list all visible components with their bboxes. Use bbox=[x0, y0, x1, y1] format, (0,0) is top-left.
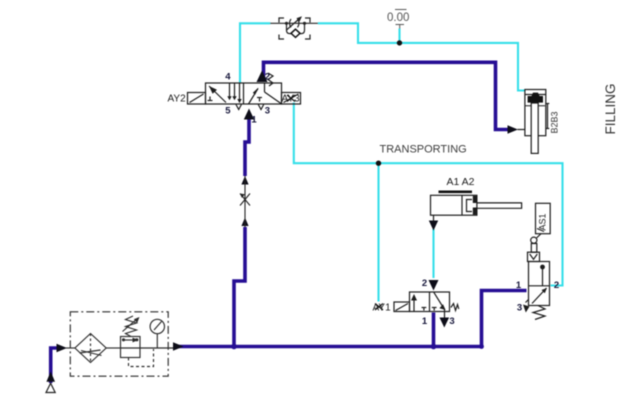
svg-text:2: 2 bbox=[265, 71, 270, 82]
svg-text:AY2: AY2 bbox=[168, 94, 187, 105]
svg-text:1: 1 bbox=[516, 280, 522, 291]
svg-text:3: 3 bbox=[265, 106, 270, 117]
svg-text:2: 2 bbox=[422, 278, 427, 289]
svg-text:4: 4 bbox=[225, 71, 231, 82]
svg-text:3: 3 bbox=[449, 316, 454, 327]
svg-text:B2B3: B2B3 bbox=[550, 111, 560, 133]
svg-text:FILLING: FILLING bbox=[603, 83, 618, 134]
svg-text:3: 3 bbox=[517, 303, 522, 314]
svg-text:1: 1 bbox=[251, 115, 257, 126]
svg-text:A1 A2: A1 A2 bbox=[447, 176, 475, 188]
svg-text:1: 1 bbox=[422, 316, 428, 327]
svg-text:AS1: AS1 bbox=[538, 213, 548, 230]
svg-text:0.00: 0.00 bbox=[387, 12, 409, 24]
svg-text:TRANSPORTING: TRANSPORTING bbox=[380, 144, 467, 156]
svg-text:2: 2 bbox=[554, 280, 559, 291]
svg-text:5: 5 bbox=[225, 106, 231, 117]
